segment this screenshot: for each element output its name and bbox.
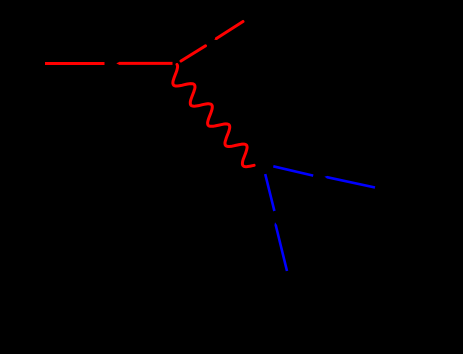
arrowhead on incoming red fermion line (open V pointing back-left) <box>116 62 119 65</box>
wire: blue fermion line going right from vertex V2, left segment <box>273 166 313 175</box>
wire: blue fermion line going right, right segment <box>327 177 375 187</box>
wire: outgoing red fermion line, lower segment from vertex V1 <box>181 46 206 61</box>
wire: blue fermion line going down from vertex V2, upper segment <box>265 174 274 211</box>
wire: incoming red fermion line, right segment to vertex V1 <box>119 62 172 65</box>
arrowhead on outgoing red fermion line (open V pointing back toward vertex) <box>214 37 217 40</box>
arrowhead on down-going blue fermion line (open V pointing back-up) <box>274 222 277 225</box>
wire: outgoing red fermion line, upper segment <box>217 22 243 39</box>
photon propagator (red wavy line) from vertex V1 to vertex V2 <box>173 65 254 167</box>
wire: incoming red fermion line, left segment <box>45 62 105 65</box>
wire: blue fermion line going down, lower segment <box>276 225 287 271</box>
arrowhead on right-going blue fermion line (open V pointing back-left) <box>324 176 327 179</box>
